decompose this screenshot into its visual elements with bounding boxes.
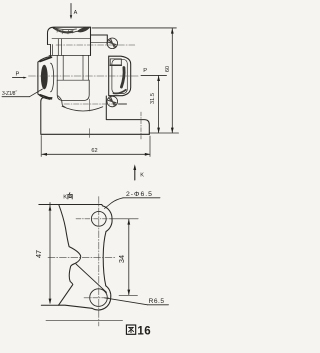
label R6.5: [105, 298, 169, 305]
dim 60 extension top: [92, 27, 176, 29]
dim 47: [34, 203, 52, 305]
ground line: [46, 319, 123, 321]
svg-text:31.5: 31.5: [150, 93, 156, 104]
fitting inner capsule: [112, 59, 127, 93]
dim 60: [165, 28, 174, 133]
svg-text:47: 47: [34, 250, 43, 258]
fitting bottom blob: [114, 90, 126, 94]
bottom edge: [41, 133, 149, 135]
top hole: [91, 211, 106, 226]
label P left: [13, 72, 27, 79]
port ellipse dark: [41, 65, 48, 90]
fitting inner box: [110, 59, 121, 65]
svg-text:34: 34: [117, 255, 126, 263]
dim 31.5: [150, 76, 160, 133]
lower axis centerline: [64, 103, 117, 105]
svg-text:K: K: [140, 173, 144, 179]
bracket outline: [59, 205, 81, 305]
svg-text:A: A: [74, 10, 78, 16]
cap outline: [48, 27, 91, 55]
label 2-phi6.5: [105, 191, 161, 208]
K direction arrow: [133, 164, 144, 180]
right lower profile: [106, 96, 149, 134]
shallow arc under body: [62, 106, 103, 111]
interior chamber: [57, 80, 89, 100]
cap inner line: [52, 38, 91, 40]
label P right: [141, 68, 167, 76]
interior shelf line: [49, 54, 91, 56]
right fitting: [109, 56, 131, 95]
hex face arc: [51, 63, 54, 92]
label 3-Z1/8: [2, 89, 43, 97]
interior vertical lines: [53, 39, 89, 80]
base extension line right: [149, 132, 178, 134]
svg-text:P: P: [16, 72, 20, 78]
body left edge lower / base step: [41, 98, 52, 135]
bracket foot bottom: [59, 305, 92, 308]
hatched nut circle: [107, 38, 118, 49]
svg-text:62: 62: [91, 148, 97, 154]
svg-text:P: P: [143, 68, 147, 74]
svg-text:R6.5: R6.5: [149, 298, 165, 305]
horizontal centerline: [48, 256, 116, 258]
centerline upper axis: [56, 44, 135, 46]
svg-text:60: 60: [165, 66, 171, 72]
svg-text:16: 16: [137, 325, 151, 337]
main horizontal centerline: [29, 75, 140, 77]
dim 62: [41, 136, 150, 157]
inner web curve: [76, 264, 107, 292]
top lobe arc: [102, 205, 112, 232]
fillet into shallow arc: [58, 96, 65, 107]
bracket top edge: [39, 204, 102, 206]
svg-text:K: K: [63, 195, 67, 201]
waist right: [103, 232, 106, 286]
svg-text:2-Φ6.5: 2-Φ6.5: [126, 191, 153, 198]
vertical centerline: [98, 197, 100, 327]
top hole crosshair: [76, 218, 110, 220]
bottom hole: [90, 289, 108, 307]
fitting dark band: [121, 68, 124, 88]
small vertical axis tick: [89, 99, 91, 111]
bottom lobe arc: [92, 286, 111, 310]
mounting hole centerline: [140, 112, 142, 139]
dim 34: [117, 219, 130, 295]
label K xiang: [63, 193, 72, 201]
hatched nut circle lower: [107, 96, 118, 107]
cap lens left: [53, 28, 77, 33]
hex boss: [38, 57, 52, 100]
section arrow A: [70, 4, 78, 20]
cap lens dark: [77, 27, 91, 32]
figure label tu16: [126, 325, 151, 337]
bottom hole crosshair: [84, 297, 109, 299]
upper right block: [91, 35, 108, 44]
dim 47 bottom extension: [41, 304, 58, 306]
